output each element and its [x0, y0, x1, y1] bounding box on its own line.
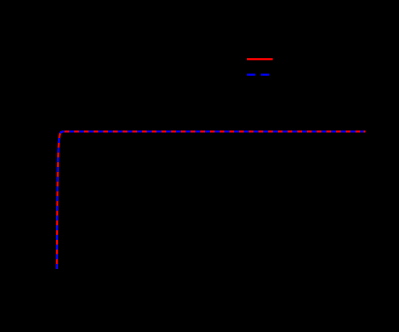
blue dashed curve: [57, 132, 364, 270]
legend blue dashed line sample: [247, 74, 273, 76]
red solid curve: [57, 132, 366, 270]
legend red line sample: [247, 58, 273, 60]
